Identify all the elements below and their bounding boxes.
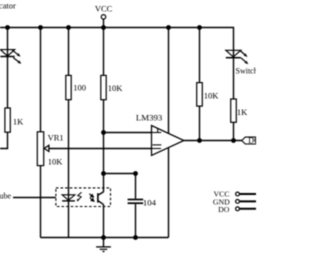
svg-text:104: 104 <box>143 198 157 208</box>
svg-text:Switch: Switch <box>236 67 257 76</box>
svg-text:1K: 1K <box>237 107 248 117</box>
svg-text:cator: cator <box>0 2 16 11</box>
svg-text:ube: ube <box>0 192 12 201</box>
svg-text:DO: DO <box>248 136 256 145</box>
svg-text:DO: DO <box>218 205 230 214</box>
svg-text:10K: 10K <box>48 156 64 166</box>
svg-text:VCC: VCC <box>95 3 113 13</box>
svg-text:10K: 10K <box>108 83 124 93</box>
svg-text:10K: 10K <box>204 91 220 101</box>
svg-text:LM393: LM393 <box>136 112 163 122</box>
svg-text:VR1: VR1 <box>48 132 64 142</box>
svg-text:1K: 1K <box>13 117 24 127</box>
svg-text:100: 100 <box>73 82 86 92</box>
